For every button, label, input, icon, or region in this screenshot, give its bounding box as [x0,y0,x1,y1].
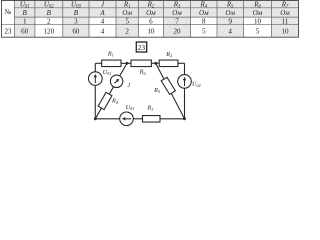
svg-text:7: 7 [175,18,179,26]
svg-text:2: 2 [47,18,51,26]
svg-text:4: 4 [101,18,105,26]
svg-text:Ом: Ом [280,9,290,17]
svg-text:10: 10 [281,27,289,35]
svg-text:8: 8 [202,18,206,26]
svg-text:5: 5 [202,27,206,35]
svg-text:20: 20 [173,27,181,35]
svg-text:60: 60 [72,27,80,35]
svg-text:10: 10 [254,18,262,26]
svg-text:120: 120 [43,27,54,35]
svg-text:J: J [127,82,130,89]
svg-text:4: 4 [101,27,105,35]
svg-text:Ом: Ом [146,9,156,17]
svg-text:Ом: Ом [199,9,209,17]
svg-text:Ом: Ом [225,9,235,17]
svg-text:60: 60 [21,27,29,35]
svg-text:В: В [23,9,28,17]
svg-text:№: № [5,8,12,16]
svg-text:В: В [74,9,79,17]
svg-text:11: 11 [282,18,289,26]
svg-text:А: А [99,9,105,17]
svg-text:9: 9 [228,18,232,26]
svg-text:Ом: Ом [172,9,182,17]
svg-text:5: 5 [125,18,129,26]
svg-text:10: 10 [147,27,155,35]
svg-text:2: 2 [125,27,129,35]
svg-text:1: 1 [23,18,27,26]
svg-text:В: В [47,9,52,17]
svg-text:23: 23 [4,27,12,35]
svg-text:23: 23 [138,43,146,52]
svg-text:Ом: Ом [122,9,132,17]
svg-text:5: 5 [256,27,260,35]
svg-text:3: 3 [74,18,78,26]
svg-text:Ом: Ом [253,9,263,17]
svg-text:4: 4 [228,27,232,35]
svg-text:6: 6 [149,18,153,26]
